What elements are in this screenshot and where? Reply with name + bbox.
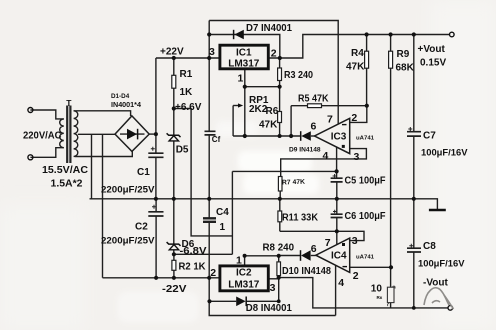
svg-text:2200μF/25V: 2200μF/25V <box>101 236 155 246</box>
svg-text:+6.6V: +6.6V <box>175 102 202 113</box>
svg-text:6: 6 <box>311 243 317 255</box>
svg-text:R7 47K: R7 47K <box>282 179 305 187</box>
svg-text:7: 7 <box>325 237 331 249</box>
svg-text:C7: C7 <box>423 131 436 142</box>
svg-text:3: 3 <box>270 282 276 294</box>
svg-text:+Vout: +Vout <box>418 44 446 55</box>
svg-text:2: 2 <box>351 112 357 124</box>
svg-text:D6: D6 <box>182 239 195 250</box>
svg-text:3: 3 <box>352 235 358 247</box>
svg-text:Cf: Cf <box>212 135 221 144</box>
svg-text:R2 1K: R2 1K <box>179 262 207 273</box>
svg-text:1K: 1K <box>180 87 194 98</box>
svg-text:-22V: -22V <box>162 284 187 295</box>
svg-text:68K: 68K <box>396 63 415 74</box>
svg-text:R5 47K: R5 47K <box>298 94 329 105</box>
svg-text:D8 IN4001: D8 IN4001 <box>246 303 292 314</box>
svg-text:1.5A*2: 1.5A*2 <box>51 178 83 190</box>
svg-text:1: 1 <box>238 73 244 85</box>
svg-text:LM317: LM317 <box>228 59 260 70</box>
svg-text:R6: R6 <box>266 106 279 117</box>
svg-text:uA741: uA741 <box>356 255 374 261</box>
svg-text:D9 IN4148: D9 IN4148 <box>289 147 321 154</box>
svg-text:100μF/16V: 100μF/16V <box>418 259 465 269</box>
svg-text:220V/AC: 220V/AC <box>23 130 62 142</box>
svg-text:4: 4 <box>338 277 344 289</box>
svg-text:6: 6 <box>311 121 317 133</box>
svg-text:IN4001*4: IN4001*4 <box>111 100 141 109</box>
svg-text:R4: R4 <box>351 48 364 59</box>
svg-text:C8: C8 <box>423 241 436 252</box>
svg-text:R3 240: R3 240 <box>284 70 313 81</box>
svg-text:C1: C1 <box>137 167 150 178</box>
svg-text:7: 7 <box>327 114 333 126</box>
svg-text:2: 2 <box>210 267 216 279</box>
svg-text:R8 240: R8 240 <box>263 243 295 254</box>
svg-text:IC3: IC3 <box>331 132 347 143</box>
svg-text:47K: 47K <box>259 120 278 131</box>
svg-text:IC2: IC2 <box>236 268 252 279</box>
svg-text:D1-D4: D1-D4 <box>111 93 130 100</box>
svg-text:R1: R1 <box>180 69 193 80</box>
svg-text:R11 33K: R11 33K <box>282 213 319 224</box>
svg-text:IC1: IC1 <box>236 47 252 58</box>
svg-text:C2: C2 <box>135 222 148 233</box>
svg-text:1: 1 <box>220 222 226 233</box>
svg-text:IC4: IC4 <box>331 251 347 262</box>
svg-text:C5 100μF: C5 100μF <box>345 176 386 187</box>
svg-text:uA741: uA741 <box>356 136 374 142</box>
svg-text:2: 2 <box>271 47 277 59</box>
svg-text:10: 10 <box>371 284 383 295</box>
svg-text:T: T <box>66 98 72 108</box>
svg-text:100μF/16V: 100μF/16V <box>421 148 468 158</box>
svg-text:C6 100μF: C6 100μF <box>345 211 386 222</box>
svg-text:2200μF/25V: 2200μF/25V <box>101 185 155 195</box>
svg-text:Rк: Rк <box>377 295 383 300</box>
svg-text:1: 1 <box>236 255 242 267</box>
svg-text:3: 3 <box>354 151 360 163</box>
svg-text:2: 2 <box>353 270 359 282</box>
svg-text:D7 IN4001: D7 IN4001 <box>246 23 292 34</box>
svg-text:47K: 47K <box>346 62 365 73</box>
svg-text:3: 3 <box>209 46 215 58</box>
svg-text:0.15V: 0.15V <box>420 58 446 69</box>
svg-text:4: 4 <box>323 150 329 162</box>
svg-text:C4: C4 <box>216 207 229 218</box>
svg-text:LM317: LM317 <box>228 280 260 291</box>
svg-text:D5: D5 <box>176 145 189 156</box>
svg-text:15.5V/AC: 15.5V/AC <box>42 164 88 176</box>
svg-text:-Vout: -Vout <box>423 278 448 289</box>
svg-text:R9: R9 <box>397 49 410 60</box>
svg-text:+22V: +22V <box>160 47 184 58</box>
svg-text:D10 IN4148: D10 IN4148 <box>282 266 331 277</box>
